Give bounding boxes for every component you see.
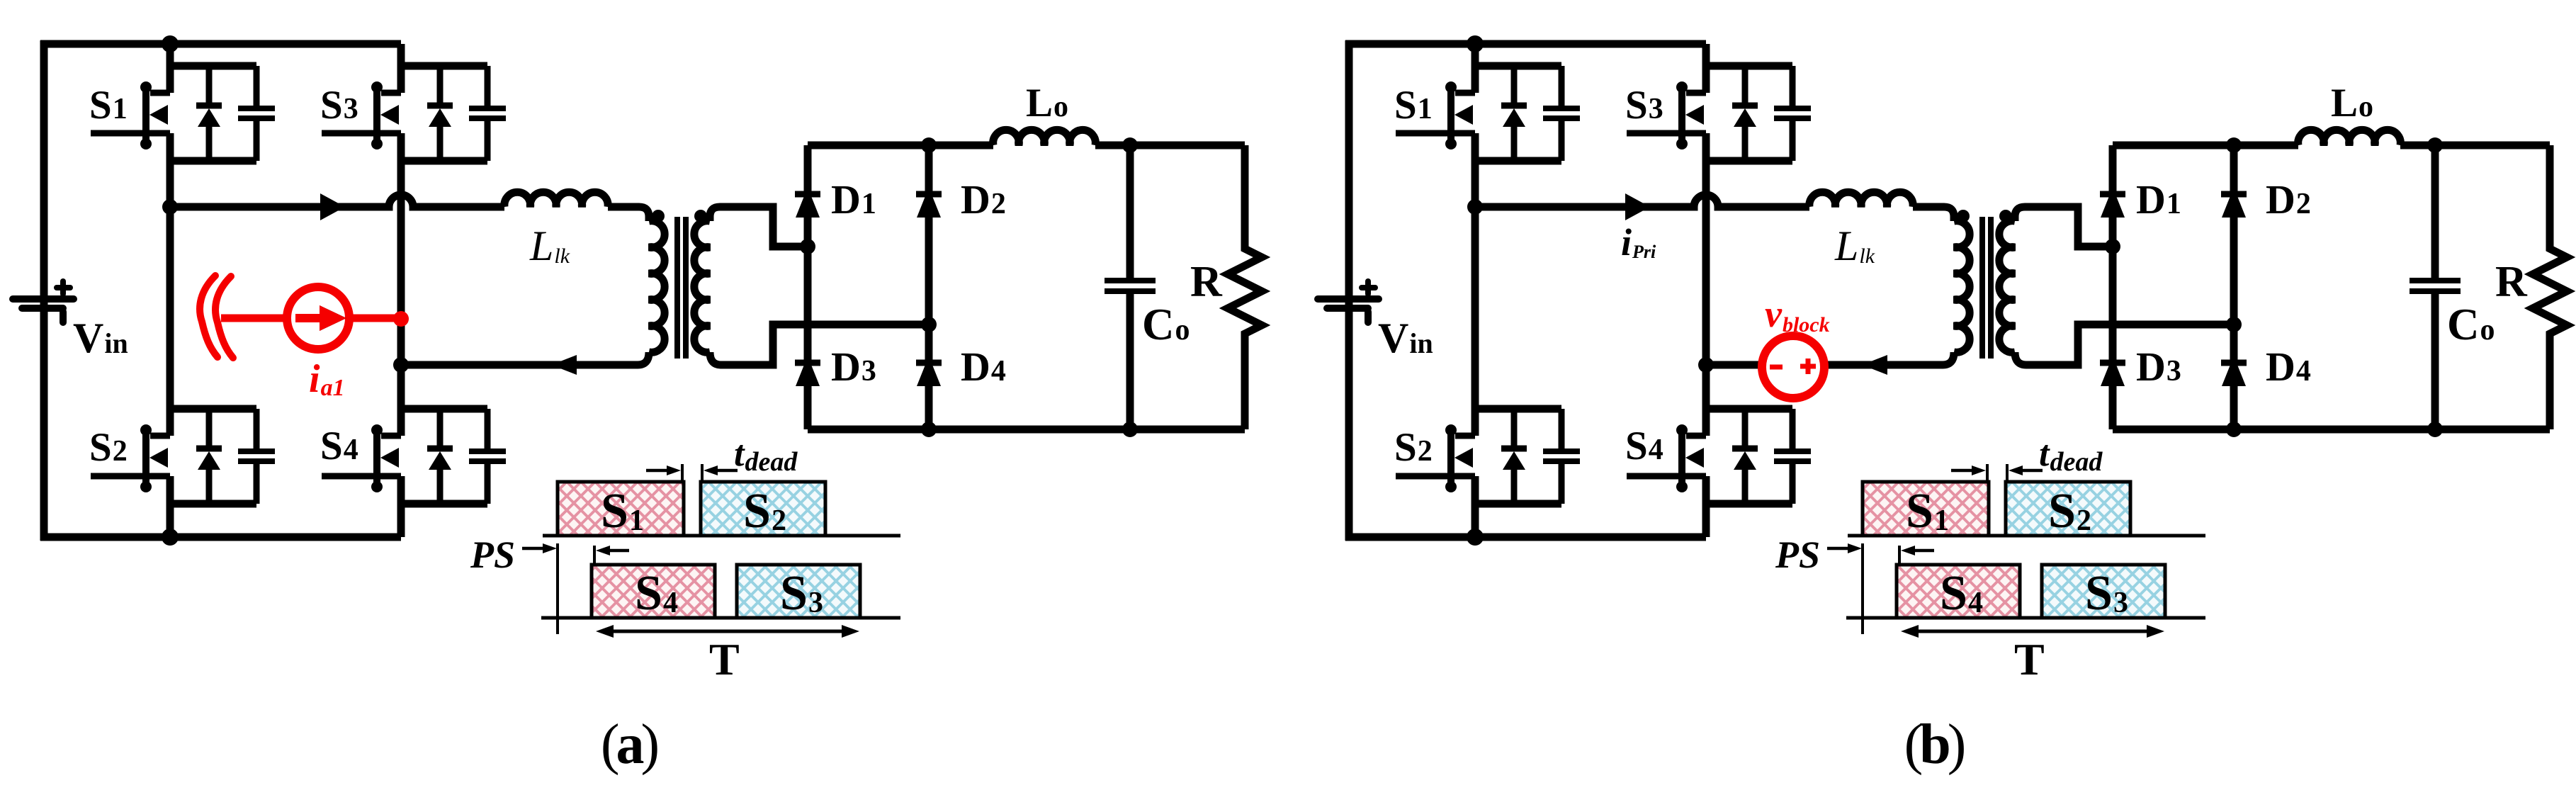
battery terminal stub (1365, 312, 1372, 322)
node: Co bottom (2427, 422, 2443, 437)
transformer T1 (1954, 210, 2015, 359)
svg-text:T: T (709, 634, 740, 684)
period T dimension arrow (606, 630, 849, 633)
node: Co top (1122, 137, 1138, 153)
current source arrow (295, 314, 322, 322)
rectifier bridge (795, 137, 1245, 437)
primary winding (649, 221, 665, 353)
wire: bottom rail (40, 534, 401, 541)
drain lead (1455, 90, 1475, 96)
primary winding (1954, 221, 1970, 353)
body diode (1742, 66, 1749, 107)
output capacitor of the switch (485, 66, 491, 108)
svg-text:R: R (1190, 258, 1223, 306)
output capacitor of the switch (1559, 409, 1565, 451)
wire: bridge right rail (925, 145, 933, 429)
diode D3 (795, 360, 820, 366)
inductor Llk (leakage inductance) (1809, 192, 1913, 207)
node: bottom rail / S2 leg junction (162, 529, 179, 546)
primary return current arrow (551, 355, 577, 375)
core (1979, 217, 1985, 359)
gate lead and source lead (1627, 473, 1706, 480)
svg-text:(b): (b) (1904, 713, 1965, 776)
dead time ticks (1986, 464, 1989, 483)
drain lead (150, 90, 170, 96)
gate bar (373, 87, 380, 144)
rectifier bridge (2100, 137, 2550, 437)
wire: secondary top lead (710, 207, 805, 247)
inductor Lo (output filter) (2298, 130, 2401, 145)
node: top rail / S1 leg junction (162, 35, 179, 52)
pulse S2 (701, 482, 825, 536)
secondary polarity dot (694, 210, 707, 222)
timing axis bottom row (541, 616, 900, 620)
parallel branch wires (401, 405, 487, 413)
output capacitor of the switch (1559, 66, 1565, 108)
secondary winding (694, 221, 710, 353)
node: A (S1/S2 midpoint) (162, 199, 178, 215)
wire: output bottom rail (808, 426, 1245, 434)
secondary winding (1999, 221, 2015, 353)
gate lead and source lead (322, 473, 401, 480)
S4 edge arrow (604, 549, 629, 553)
wire: output bottom rail (2113, 426, 2550, 434)
period T dimension arrow (1911, 630, 2154, 633)
gate timing diagram (470, 434, 900, 684)
wire: leg of S1/S2 half-bridge (166, 44, 174, 93)
minus sign (1770, 365, 1783, 370)
wire: bridge right rail (2230, 145, 2238, 429)
output capacitor of the switch (1790, 409, 1796, 451)
PS reference line (556, 543, 559, 634)
dead time arrows (1951, 469, 1977, 473)
transformer T1 (649, 210, 710, 359)
S4 edge arrow (1909, 549, 1934, 553)
transistor S4 (MOSFET with body diode and snubber capacitor) (1625, 409, 1811, 504)
diode D2 (916, 191, 942, 198)
wire: primary return (401, 352, 649, 365)
gate bar (142, 87, 149, 144)
timing axis top row (1848, 534, 2205, 538)
PS reference line (1861, 543, 1864, 634)
drain lead (1686, 433, 1706, 439)
svg-text:(a): (a) (601, 713, 658, 776)
dead time arrows (646, 469, 672, 473)
secondary polarity dot (1999, 210, 2012, 222)
wire: leg of S1/S2 half-bridge (1471, 44, 1479, 93)
parallel branch wires (170, 405, 256, 413)
timing axis top row (543, 534, 900, 538)
wire: bridge left rail (804, 145, 812, 429)
battery plus sign (57, 285, 70, 290)
wire: secondary top lead (2015, 207, 2110, 247)
body diode (437, 66, 444, 107)
transistor S4 (MOSFET with body diode and snubber capacitor) (320, 409, 506, 504)
wire: output top rail (808, 142, 1245, 149)
primary polarity dot (1957, 210, 1970, 222)
pulse S2 (2006, 482, 2130, 536)
diode D1 (795, 191, 820, 198)
current direction arrow on primary wire (320, 193, 345, 220)
wire: top rail (1345, 40, 1706, 48)
wire: Llk to transformer primary (608, 207, 649, 221)
node: right rail bottom (2226, 422, 2242, 437)
parallel branch wires (1475, 62, 1561, 70)
wire: top rail (40, 40, 401, 48)
pulse S1 (1863, 482, 1989, 536)
gate bar (1678, 430, 1685, 487)
gate lead and source lead (1627, 130, 1706, 137)
capacitor Co (2410, 145, 2461, 429)
red lead right (349, 315, 401, 322)
core (674, 217, 680, 359)
diode D1 (2100, 191, 2125, 198)
current source circle (287, 287, 349, 349)
gate bar (1678, 87, 1685, 144)
node: Co top (2427, 137, 2443, 153)
current direction arrow on primary wire (1625, 193, 1650, 220)
node: secondary bottom / right rail (921, 317, 937, 332)
primary polarity dot (652, 210, 665, 222)
parallel branch wires (1706, 62, 1792, 70)
node: Co bottom (1122, 422, 1138, 437)
node: primary return / S3 leg junction (393, 357, 409, 373)
output capacitor of the switch (254, 66, 260, 108)
body diode (1511, 409, 1518, 450)
gate lead and source lead (1396, 473, 1475, 480)
drain lead (1455, 433, 1475, 439)
svg-text:R: R (2495, 258, 2528, 306)
transistor S3 (MOSFET with body diode and snubber capacitor) (1625, 66, 1811, 161)
wire: leg of S3/S4 half-bridge (1702, 44, 1710, 93)
body diode (206, 409, 213, 450)
drain lead (381, 90, 401, 96)
inductor Llk (leakage inductance) (504, 192, 608, 207)
wire: bridge output A to leakage inductance (with hop over S3 leg) (170, 195, 504, 207)
transistor S1 (MOSFET with body diode and snubber capacitor) (1394, 66, 1580, 161)
body diode (437, 409, 444, 450)
battery Vin (1318, 281, 1433, 361)
diode D4 (916, 360, 942, 366)
transistor S2 (MOSFET with body diode and snubber capacitor) (1394, 409, 1580, 504)
pulse S3 (737, 565, 860, 618)
output capacitor of the switch (485, 409, 491, 451)
wire: primary return (1826, 352, 1954, 365)
gate lead and source lead (322, 130, 401, 137)
red blocking voltage source vblock (1762, 293, 1830, 398)
parallel branch wires (401, 62, 487, 70)
S4 edge tick (593, 546, 596, 565)
resistor R (load) (2533, 145, 2567, 429)
pulse S4 (592, 565, 715, 618)
red auxiliary current source ia1 (200, 276, 409, 401)
node: secondary top / left rail (2105, 239, 2120, 254)
resistor R (load) (1228, 145, 1262, 429)
output capacitor of the switch (254, 409, 260, 451)
body diode (206, 66, 213, 107)
svg-text:PS: PS (1775, 534, 1820, 576)
wire: left wall (1345, 40, 1353, 541)
node: primary return / S3 leg junction (1698, 357, 1714, 373)
body diode (1742, 409, 1749, 450)
gate bar (373, 430, 380, 487)
source arrow (1685, 105, 1704, 125)
parallel branch wires (170, 62, 256, 70)
gate bar (1447, 430, 1454, 487)
gate bar (142, 430, 149, 487)
drain lead (1686, 90, 1706, 96)
battery Vin (13, 281, 128, 361)
parallel branch wires (1706, 405, 1792, 413)
wire: bridge output A to leakage inductance (with hop over S3 leg) (1475, 195, 1809, 207)
node: A (S1/S2 midpoint) (1467, 199, 1483, 215)
wire: left wall (40, 40, 48, 541)
source arrow (380, 448, 399, 468)
source arrow (149, 448, 168, 468)
inductor Lo (output filter) (993, 130, 1096, 145)
node: top rail / S1 leg junction (1467, 35, 1484, 52)
diode D3 (2100, 360, 2125, 366)
S4 edge tick (1898, 546, 1901, 565)
source arrow (1454, 448, 1473, 468)
pulse S1 (558, 482, 684, 536)
source arrow (1454, 105, 1473, 125)
red break squiggle (200, 276, 218, 357)
output capacitor of the switch (1790, 66, 1796, 108)
dead time ticks (681, 464, 684, 483)
source arrow (380, 105, 399, 125)
drain lead (150, 433, 170, 439)
svg-text:PS: PS (470, 534, 515, 576)
plus sign (1800, 364, 1816, 369)
pulse S4 (1897, 565, 2020, 618)
source arrow (149, 105, 168, 125)
transistor S3 (MOSFET with body diode and snubber capacitor) (320, 66, 506, 161)
wire: output top rail (2113, 142, 2550, 149)
battery terminal stub (60, 312, 67, 322)
capacitor Co (1105, 145, 1156, 429)
node: right rail top (2226, 137, 2242, 153)
wire: Llk to transformer primary (1913, 207, 1954, 221)
primary return current arrow (1862, 355, 1887, 375)
node: bottom rail / S2 leg junction (1467, 529, 1484, 546)
wire: bottom rail (1345, 534, 1706, 541)
timing axis bottom row (1846, 616, 2205, 620)
transistor S1 (MOSFET with body diode and snubber capacitor) (89, 66, 275, 161)
pulse S3 (2042, 565, 2165, 618)
PS arrow (1827, 547, 1853, 551)
gate lead and source lead (91, 130, 170, 137)
PS arrow (522, 547, 548, 551)
transistor S2 (MOSFET with body diode and snubber capacitor) (89, 409, 275, 504)
node: red injection point (393, 311, 409, 327)
node: right rail top (921, 137, 937, 153)
gate lead and source lead (1396, 130, 1475, 137)
diode D2 (2221, 191, 2247, 198)
gate bar (1447, 87, 1454, 144)
svg-text:T: T (2014, 634, 2045, 684)
wire: bridge left rail (2109, 145, 2117, 429)
body diode (1511, 66, 1518, 107)
battery plus sign (1362, 285, 1375, 290)
parallel branch wires (1475, 405, 1561, 413)
source arrow (1685, 448, 1704, 468)
node: secondary top / left rail (800, 239, 815, 254)
gate timing diagram (1775, 434, 2205, 684)
wire: leg of S3/S4 half-bridge (397, 44, 405, 93)
red lead left (221, 315, 287, 322)
diode D4 (2221, 360, 2247, 366)
wire: secondary bottom lead (710, 325, 929, 365)
wire: secondary bottom lead (2015, 325, 2234, 365)
gate lead and source lead (91, 473, 170, 480)
node: right rail bottom (921, 422, 937, 437)
node: secondary bottom / right rail (2226, 317, 2242, 332)
drain lead (381, 433, 401, 439)
